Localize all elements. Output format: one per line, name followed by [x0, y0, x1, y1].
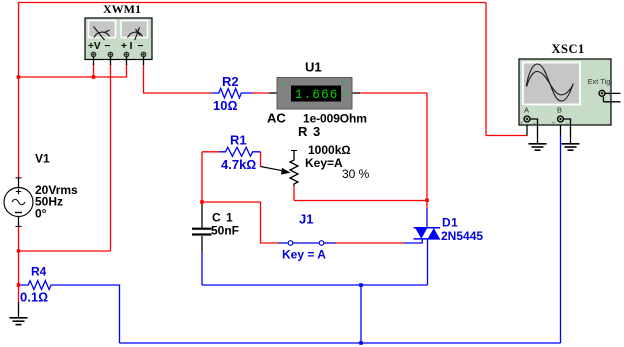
switch J1: [288, 241, 324, 246]
wire scope B down: [560, 135, 562, 343]
wire scope A feed horizontal: [486, 135, 527, 137]
svg-text:R4: R4: [31, 265, 47, 279]
wire R1 right drop to wiper: [260, 152, 262, 167]
wire R1 left vertical: [201, 152, 203, 202]
svg-text:C 1: C 1: [212, 211, 234, 225]
svg-text:R 3: R 3: [298, 124, 321, 139]
svg-text:R2: R2: [222, 74, 239, 89]
pin U1 left stub: [269, 92, 277, 94]
svg-text:XSC1: XSC1: [552, 42, 585, 56]
svg-text:0.1Ω: 0.1Ω: [20, 290, 48, 305]
wire J1 left pin stub blue: [278, 242, 288, 244]
wire R3 bottom rail y200: [294, 200, 427, 202]
resistor R1: [219, 147, 261, 156]
svg-text:R1: R1: [230, 133, 247, 148]
XSC1 terminal A: [524, 116, 530, 122]
svg-text:+ I: + I: [121, 41, 133, 52]
ground at V1: [10, 302, 28, 325]
svg-text:1000kΩ: 1000kΩ: [308, 143, 351, 157]
svg-text:4.7kΩ: 4.7kΩ: [221, 157, 256, 172]
XWM1 terminal I-: [141, 52, 146, 57]
junction node at 202,202: [200, 200, 204, 204]
svg-text:AC: AC: [267, 111, 286, 126]
wire XWM1 I+ stub down: [126, 64, 128, 77]
triac D1: [414, 228, 441, 239]
wire U1 right to drop: [360, 92, 427, 94]
wire main drop x427 to R3 node: [426, 93, 428, 200]
wire D1 top blue part: [426, 208, 428, 228]
junction node at 361,285: [359, 283, 363, 287]
svg-text:+: +: [281, 79, 286, 89]
svg-text:A: A: [343, 91, 348, 98]
wire wattmeter V+ junction line y77: [19, 76, 128, 78]
ammeter U1: [277, 77, 352, 110]
junction node at 18,251: [17, 249, 20, 252]
capacitor C1: [192, 228, 212, 236]
wire bus drop x361: [360, 285, 362, 343]
junction node at 18,77: [17, 75, 21, 79]
pin stubs XWM1 black: [94, 57, 144, 65]
XWM1 terminal V+: [91, 52, 96, 57]
resistor R2: [212, 89, 253, 98]
wire R2 right to U1: [252, 92, 269, 94]
pin scope A stub black: [526, 122, 528, 136]
pin R3 top tick: [291, 150, 297, 152]
junction node at 18,285: [17, 283, 21, 287]
wattmeter XWM1: [85, 18, 152, 60]
wire R3 bottom red: [293, 186, 295, 201]
svg-text:1e-009Ohm: 1e-009Ohm: [303, 112, 367, 126]
svg-text:Key=A: Key=A: [305, 156, 343, 170]
wire J1 right pin stub blue: [324, 242, 336, 244]
svg-text:−: −: [138, 41, 144, 52]
wire R1 left stub: [202, 151, 219, 153]
svg-text:50nF: 50nF: [211, 224, 239, 238]
wire C1 node to switch: right then down then to J1: [202, 202, 278, 243]
wire bottom rail y341: [120, 342, 561, 344]
wire left rail vertical V1 top: [18, 3, 20, 179]
XSC1 terminal B: [558, 116, 564, 122]
svg-text:+V: +V: [88, 41, 101, 52]
svg-text:Key = A: Key = A: [282, 248, 326, 262]
svg-text:30 %: 30 %: [342, 167, 370, 181]
R3 wiper arrowhead: [281, 168, 291, 175]
wire top rail red from left rail to scope drop: [18, 2, 486, 4]
svg-text:2N5445: 2N5445: [441, 229, 483, 243]
pin scope B stub black: [560, 122, 562, 136]
wire gate blue segment to D1: [404, 239, 422, 243]
svg-text:J1: J1: [299, 212, 313, 227]
junction node at 94,77: [92, 75, 96, 79]
svg-text:U1: U1: [305, 60, 322, 75]
wire D1 bottom down to bus: [427, 239, 429, 285]
wire XWM1 V- down long: [110, 64, 112, 251]
svg-text:+: +: [552, 121, 556, 127]
svg-text:+: +: [520, 121, 524, 127]
wire R4 right to drop: [53, 285, 120, 343]
svg-text:10Ω: 10Ω: [213, 98, 237, 113]
pin C1 bottom black: [201, 236, 203, 252]
XWM1 terminal I+: [124, 52, 129, 57]
ground at scope B: [562, 119, 580, 150]
svg-text:XWM1: XWM1: [103, 2, 141, 16]
svg-text:−: −: [566, 121, 570, 127]
wire V- return horizontal y251: [19, 250, 111, 252]
svg-text:Ext Tig: Ext Tig: [588, 77, 611, 86]
R3 wiper line: [261, 167, 284, 171]
svg-text:1.666: 1.666: [295, 88, 339, 102]
svg-text:−: −: [343, 77, 348, 87]
pin U1 right stub: [352, 92, 360, 94]
wire J1 closed bar: [293, 242, 319, 244]
wire V1 bottom to R4 junction: [18, 227, 20, 303]
junction node at 361,341: [359, 341, 363, 345]
svg-text:D1: D1: [442, 216, 458, 230]
wire C1 bottom blue down: [201, 252, 203, 286]
junction node at 427,200: [425, 198, 429, 202]
oscilloscope XSC1: [519, 59, 612, 127]
wire J1 right red segment: [336, 242, 405, 244]
wire XWM1 I- down then right to R2: [144, 64, 212, 93]
svg-text:−: −: [105, 41, 111, 52]
potentiometer R3 body: [290, 151, 298, 187]
XWM1 terminal V-: [108, 52, 113, 57]
svg-text:B: B: [557, 106, 562, 115]
resistor R4: [21, 281, 54, 290]
XSC1 terminal ExtTrig: [599, 90, 605, 96]
wire blue bus y285 C1 to D1: [202, 284, 428, 286]
svg-text:−: −: [533, 121, 537, 127]
wire XWM1 V+ stub down: [93, 64, 95, 77]
wire node to D1 top red part: [426, 200, 428, 208]
svg-text:A: A: [524, 106, 529, 115]
ExtTrig stub lines: [603, 93, 620, 101]
svg-text:V1: V1: [35, 152, 50, 166]
AC source V1: [4, 178, 33, 227]
wire scope drop vertical: [485, 3, 487, 136]
ground at scope A: [529, 119, 547, 150]
svg-text:0°: 0°: [35, 207, 47, 221]
pin C1 top black: [201, 202, 203, 228]
